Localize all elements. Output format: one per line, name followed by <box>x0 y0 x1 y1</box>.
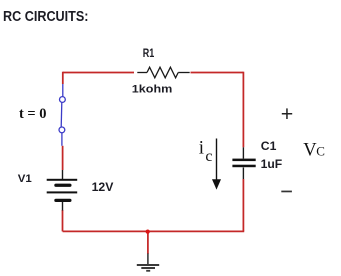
svg-text:V: V <box>303 141 317 161</box>
svg-text:t = 0: t = 0 <box>19 106 47 122</box>
svg-text:R1: R1 <box>143 46 155 60</box>
svg-text:RC CIRCUITS:: RC CIRCUITS: <box>3 9 89 25</box>
svg-text:12V: 12V <box>92 182 114 194</box>
svg-text:V1: V1 <box>18 173 32 185</box>
svg-text:C1: C1 <box>261 139 277 153</box>
svg-text:i: i <box>199 138 204 159</box>
svg-text:1kohm: 1kohm <box>132 84 173 96</box>
svg-text:1uF: 1uF <box>261 159 283 171</box>
svg-text:C: C <box>316 144 325 159</box>
svg-text:c: c <box>205 148 212 165</box>
